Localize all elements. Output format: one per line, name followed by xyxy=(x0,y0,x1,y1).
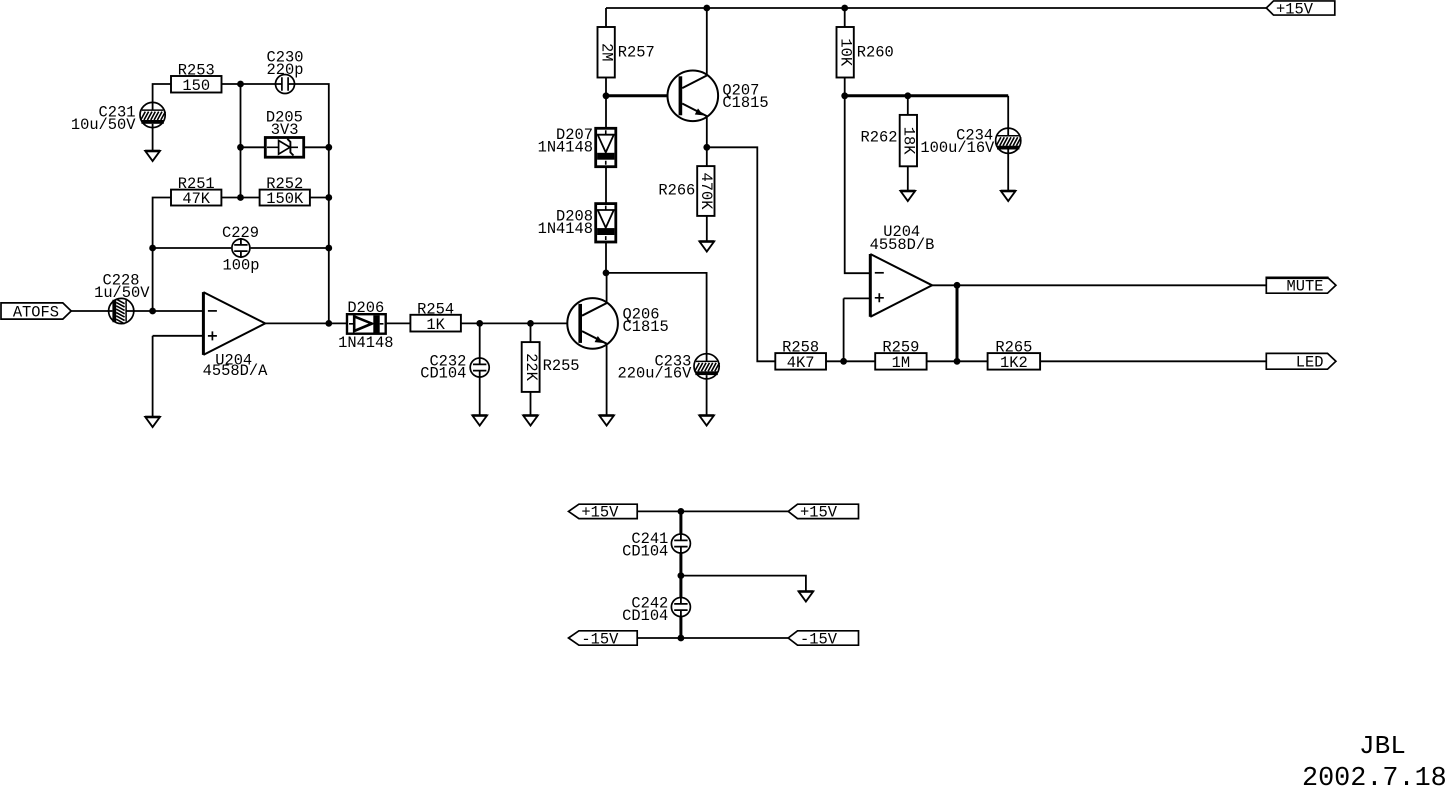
wire R251 to R252 xyxy=(221,197,259,199)
wire R255 to ground xyxy=(530,392,532,416)
wire R258 to R259 xyxy=(826,360,875,362)
ground power mid xyxy=(798,592,813,602)
wire R254 to Q206 base xyxy=(461,322,577,324)
junction xyxy=(476,320,483,327)
capacitor C232 xyxy=(470,357,489,378)
svg-text:1K: 1K xyxy=(426,316,445,334)
svg-text:-15V: -15V xyxy=(581,630,619,648)
port MUTE top edge xyxy=(1266,276,1328,279)
op-amp U204/A xyxy=(203,292,265,355)
junction xyxy=(237,144,244,151)
svg-text:R266: R266 xyxy=(658,182,695,200)
wire to C234 xyxy=(1007,96,1009,128)
wire ATOFS to C228 xyxy=(70,310,108,312)
resistor R255 xyxy=(522,342,580,392)
svg-text:C1815: C1815 xyxy=(623,318,669,336)
wire R259 to R265 xyxy=(927,360,988,362)
svg-text:220p: 220p xyxy=(267,61,304,79)
svg-text:-15V: -15V xyxy=(800,630,838,648)
wire C229 to column xyxy=(251,247,329,249)
junction xyxy=(954,358,961,365)
wire +15V top rail xyxy=(606,7,1266,9)
svg-text:CD104: CD104 xyxy=(622,543,668,561)
capacitor C228 xyxy=(108,298,135,323)
wire to C229 xyxy=(153,247,232,249)
capacitor C241 xyxy=(671,533,690,554)
wire C233 to ground xyxy=(706,379,708,416)
wire node to R266 xyxy=(706,147,708,166)
svg-text:1M: 1M xyxy=(892,354,910,372)
junction xyxy=(237,194,244,201)
svg-text:CD104: CD104 xyxy=(420,365,466,383)
svg-text:1N4148: 1N4148 xyxy=(338,334,393,352)
junction xyxy=(149,308,156,315)
svg-text:22K: 22K xyxy=(522,353,540,381)
ground C232 xyxy=(472,416,487,426)
wire +15V to +15V xyxy=(637,510,788,512)
wire output to R259 node xyxy=(956,285,959,361)
wire U204B output to MUTE xyxy=(932,284,1266,286)
resistor R266 xyxy=(658,166,715,216)
svg-text:+15V: +15V xyxy=(581,504,619,522)
diode D208 xyxy=(596,204,616,242)
wire -15V to -15V xyxy=(637,637,788,639)
wire emitter node to R258 xyxy=(707,147,776,361)
wire node to U204B inverting input xyxy=(845,96,871,273)
svg-text:2002.7.18: 2002.7.18 xyxy=(1302,764,1447,786)
wire R251 left down xyxy=(153,198,171,312)
wire C231 to ground xyxy=(152,128,154,152)
svg-text:R262: R262 xyxy=(861,129,898,147)
svg-text:1K2: 1K2 xyxy=(1000,354,1028,372)
wire middle node to ground xyxy=(681,576,806,592)
resistor R252 xyxy=(260,175,310,208)
wire node column xyxy=(240,84,242,198)
resistor R257 xyxy=(597,27,654,78)
junction xyxy=(527,320,534,327)
port ATOFS xyxy=(1,303,71,321)
junction xyxy=(325,144,332,151)
transistor Q207 xyxy=(668,71,719,122)
ground C233 xyxy=(699,416,714,426)
resistor R265 xyxy=(988,339,1041,373)
wire to R255 xyxy=(530,323,532,342)
wire C230 down right column xyxy=(295,84,329,323)
wire C241 to C242 xyxy=(679,553,682,597)
wire C232 to ground xyxy=(479,377,481,415)
wire node to D207 xyxy=(605,96,607,129)
capacitor C230 xyxy=(275,75,296,94)
wire D207 to D208 xyxy=(605,167,607,204)
wire R252 to column xyxy=(310,197,329,199)
junction xyxy=(841,92,848,99)
svg-text:10K: 10K xyxy=(836,38,854,66)
resistor R254 xyxy=(410,300,461,334)
ground Q206 emitter xyxy=(599,416,614,426)
svg-text:4558D/A: 4558D/A xyxy=(203,362,268,380)
resistor R260 xyxy=(836,27,893,78)
junction xyxy=(678,508,685,515)
ground C234 xyxy=(1001,191,1016,201)
svg-text:4K7: 4K7 xyxy=(787,354,815,372)
ground C231 xyxy=(145,151,160,161)
wire input to R258 node xyxy=(843,298,845,361)
svg-text:ATOFS: ATOFS xyxy=(13,303,59,321)
ground R266 xyxy=(699,242,714,252)
svg-text:10u/50V: 10u/50V xyxy=(71,116,136,134)
wire R266 to ground xyxy=(706,216,708,242)
junction xyxy=(149,245,156,252)
wire R257 to node xyxy=(605,78,607,96)
junction xyxy=(603,92,610,99)
port LED xyxy=(1266,353,1336,371)
svg-text:100p: 100p xyxy=(223,257,260,275)
wire U204A noninverting input xyxy=(153,335,204,337)
svg-text:C1815: C1815 xyxy=(722,94,768,112)
capacitor C229 xyxy=(232,238,250,258)
junction xyxy=(325,320,332,327)
svg-text:R257: R257 xyxy=(618,44,655,62)
wire Q207 emitter down xyxy=(706,116,708,147)
wire rail to R260 xyxy=(844,8,846,27)
wire rail to Q207 collector xyxy=(706,8,708,76)
svg-text:LED: LED xyxy=(1296,354,1324,372)
svg-text:100u/16V: 100u/16V xyxy=(920,139,995,157)
svg-text:470K: 470K xyxy=(697,173,715,211)
power flag +15V bottom right xyxy=(788,504,858,522)
svg-text:220u/16V: 220u/16V xyxy=(618,365,693,383)
ground R255 xyxy=(523,416,538,426)
junction xyxy=(325,245,332,252)
wire C228 to U204A inverting input xyxy=(134,310,204,312)
resistor R259 xyxy=(875,339,926,373)
capacitor C234 xyxy=(996,127,1021,154)
junction xyxy=(703,5,710,12)
junction xyxy=(325,194,332,201)
capacitor C242 xyxy=(671,597,690,618)
diode D207 xyxy=(596,128,616,166)
power flag +15V top xyxy=(1266,0,1335,18)
svg-text:150K: 150K xyxy=(266,190,304,208)
capacitor C231 xyxy=(140,101,165,128)
wire +15V rail down xyxy=(679,511,682,533)
svg-text:JBL: JBL xyxy=(1359,731,1406,761)
svg-text:+15V: +15V xyxy=(800,504,838,522)
wire R260 to node xyxy=(844,78,846,96)
junction xyxy=(841,5,848,12)
svg-text:D206: D206 xyxy=(347,299,384,317)
wire R253 to C230 xyxy=(222,83,276,85)
wire C242 to -15V rail xyxy=(679,617,682,638)
resistor R251 xyxy=(171,175,221,208)
svg-text:47K: 47K xyxy=(182,190,210,208)
resistor R253 xyxy=(171,62,222,96)
wire U204B noninverting input xyxy=(844,297,871,299)
wire to C232 xyxy=(479,323,481,357)
svg-text:1N4148: 1N4148 xyxy=(538,220,593,238)
wire R253 to C231 xyxy=(153,84,171,103)
resistor R262 xyxy=(861,115,918,166)
wire R260 node to C234 xyxy=(845,94,1009,97)
wire U204A output to D206 xyxy=(265,322,346,324)
svg-text:2M: 2M xyxy=(597,43,615,61)
svg-text:R255: R255 xyxy=(543,357,580,375)
svg-text:18K: 18K xyxy=(900,127,918,155)
wire node to R262 xyxy=(907,96,909,115)
wire Q206 emitter to ground xyxy=(606,344,608,416)
op-amp U204/B xyxy=(870,254,932,317)
junction xyxy=(840,358,847,365)
wire C234 to ground xyxy=(1007,153,1009,191)
svg-text:CD104: CD104 xyxy=(622,607,668,625)
ground R262 xyxy=(900,191,915,201)
wire Q206 collector up xyxy=(606,273,608,303)
port MUTE xyxy=(1266,277,1336,295)
diode D206 xyxy=(347,314,386,334)
junction xyxy=(678,635,685,642)
wire noninverting to ground xyxy=(152,336,154,417)
junction xyxy=(954,282,961,289)
wire D208 node to C233 xyxy=(606,273,707,354)
zener diode D205 xyxy=(265,138,303,158)
transistor Q206 xyxy=(567,298,618,349)
svg-text:4558D/B: 4558D/B xyxy=(870,236,935,254)
wire D208 to node xyxy=(605,242,607,273)
wire to D205 xyxy=(241,146,266,148)
svg-text:C229: C229 xyxy=(222,224,259,242)
junction xyxy=(678,572,685,579)
svg-text:3V3: 3V3 xyxy=(271,121,299,139)
wire D205 to column xyxy=(304,146,329,148)
capacitor C233 xyxy=(694,353,719,380)
power flag -15V bottom left xyxy=(569,630,638,648)
junction xyxy=(904,92,911,99)
power flag -15V bottom right xyxy=(788,630,858,648)
wire R262 to ground xyxy=(907,166,909,191)
resistor R258 xyxy=(775,339,826,373)
junction xyxy=(603,270,610,277)
junction xyxy=(237,81,244,88)
wire D206 to R254 xyxy=(385,322,410,324)
svg-text:1u/50V: 1u/50V xyxy=(94,284,150,302)
svg-text:+15V: +15V xyxy=(1276,0,1314,18)
svg-text:R260: R260 xyxy=(857,44,894,62)
svg-text:150: 150 xyxy=(182,77,210,95)
wire Q207 base xyxy=(606,94,679,97)
wire R265 to LED xyxy=(1040,360,1266,362)
svg-text:MUTE: MUTE xyxy=(1287,278,1324,296)
power flag +15V bottom left xyxy=(569,504,638,522)
svg-text:1N4148: 1N4148 xyxy=(538,139,593,157)
junction xyxy=(703,144,710,151)
wire rail to R257 xyxy=(605,8,607,27)
ground U204A noninverting xyxy=(145,417,160,427)
